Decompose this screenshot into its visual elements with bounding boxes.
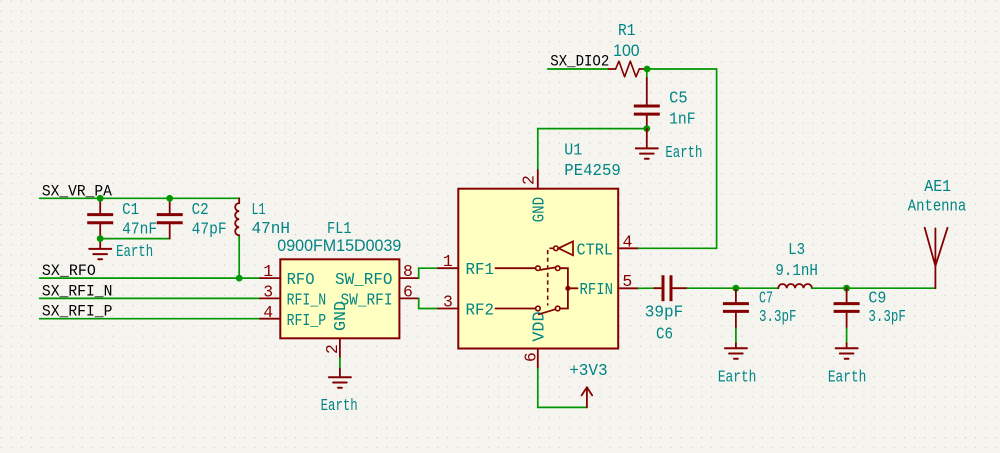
resistor R1 xyxy=(609,61,648,77)
power symbol +3V3 xyxy=(582,387,593,407)
svg-text:GND: GND xyxy=(531,197,550,223)
wire U1 GND to C5 net xyxy=(538,129,647,169)
svg-text:3.3pF: 3.3pF xyxy=(868,308,906,327)
svg-text:2: 2 xyxy=(323,344,342,354)
svg-text:100: 100 xyxy=(613,42,640,60)
capacitor C2 xyxy=(157,199,183,239)
svg-text:PE4259: PE4259 xyxy=(564,162,621,181)
svg-text:RFI_P: RFI_P xyxy=(287,312,327,331)
svg-text:3.3pF: 3.3pF xyxy=(759,308,797,327)
wire C1-C2 bottom link xyxy=(100,238,170,240)
svg-text:3: 3 xyxy=(443,292,453,311)
svg-text:U1: U1 xyxy=(564,142,582,161)
wire R1 to U1 CTRL xyxy=(639,69,717,248)
FL1 pin 2 GND xyxy=(339,338,341,358)
svg-text:C6: C6 xyxy=(656,325,673,344)
svg-text:L3: L3 xyxy=(788,241,805,260)
svg-text:L1: L1 xyxy=(252,201,266,220)
svg-text:5: 5 xyxy=(622,272,632,291)
wire SX_RFI_P xyxy=(40,318,260,320)
wire FL1 pin6 to U1 RF2 xyxy=(419,298,438,308)
U1 RFIN internal junction xyxy=(565,286,570,291)
svg-text:2: 2 xyxy=(520,175,539,185)
svg-text:C9: C9 xyxy=(868,290,886,309)
svg-text:RFO: RFO xyxy=(287,271,315,290)
junction (C1 bottom / ground) xyxy=(97,235,104,242)
antenna AE1 xyxy=(925,228,948,288)
inductor L1 xyxy=(235,198,239,235)
junction (L1 / SX_RFO) xyxy=(236,275,243,282)
ground (FL1) xyxy=(329,369,351,388)
junction (SX_VR_PA / C1) xyxy=(97,195,104,202)
svg-text:C1: C1 xyxy=(122,201,139,220)
FL1 pin 3 RFI_N xyxy=(260,297,280,299)
junction (C7 node) xyxy=(733,285,740,292)
svg-text:SX_DIO2: SX_DIO2 xyxy=(550,52,609,70)
svg-text:SX_RFI_N: SX_RFI_N xyxy=(42,282,113,300)
svg-text:39pF: 39pF xyxy=(645,304,684,323)
FL1 pin 6 SW_RFI xyxy=(399,297,418,299)
svg-text:+3V3: +3V3 xyxy=(569,362,608,381)
capacitor C7 xyxy=(723,288,749,328)
svg-text:8: 8 xyxy=(403,262,413,281)
U1 CTRL buffer triangle xyxy=(559,241,574,255)
wire SX_RFI_N xyxy=(40,297,260,299)
capacitor C1 xyxy=(87,199,113,239)
svg-text:C7: C7 xyxy=(759,290,773,309)
U1 pin 4 CTRL xyxy=(618,247,638,249)
IC U1 body xyxy=(458,189,618,349)
svg-text:0900FM15D0039: 0900FM15D0039 xyxy=(277,237,401,255)
FL1 pin 8 SW_RFO xyxy=(399,277,418,279)
svg-text:SW_RFO: SW_RFO xyxy=(335,271,393,290)
U1 pin 2 GND xyxy=(537,169,539,189)
svg-text:47nH: 47nH xyxy=(252,220,291,239)
U1 pin 5 RFIN xyxy=(618,287,638,289)
svg-text:C2: C2 xyxy=(192,201,209,220)
wire U1 VDD to +3V3 xyxy=(538,369,587,408)
inductor L3 xyxy=(778,284,812,288)
svg-text:C5: C5 xyxy=(669,90,688,109)
U1 internal RF1 line xyxy=(496,267,536,269)
wire FL1 pin2 to ground xyxy=(339,358,341,369)
wire SX_VR_PA xyxy=(40,197,240,199)
svg-text:1nF: 1nF xyxy=(669,110,696,129)
svg-text:AE1: AE1 xyxy=(924,178,951,197)
U1 pin 6 VDD xyxy=(537,349,539,369)
svg-text:Earth: Earth xyxy=(718,369,757,388)
U1 switch contact circles xyxy=(536,266,560,311)
U1 internal RF2 line xyxy=(496,308,536,310)
svg-text:Earth: Earth xyxy=(665,144,702,163)
svg-text:4: 4 xyxy=(623,232,633,251)
svg-text:1: 1 xyxy=(263,262,273,281)
wire U1 RFIN to C6 xyxy=(639,287,655,289)
U1 switch blade RF2 (open) xyxy=(539,309,556,314)
U1 RFIN internal line xyxy=(568,287,578,289)
svg-text:R1: R1 xyxy=(618,22,636,41)
wire C7 to ground xyxy=(735,328,737,343)
ground (C1) xyxy=(89,239,111,260)
U1 pin 3 RF2 xyxy=(438,308,458,310)
wire C9 to ground xyxy=(846,328,848,343)
svg-text:Earth: Earth xyxy=(321,397,358,416)
capacitor C9 xyxy=(834,288,860,328)
wire L1 bottom to SX_RFO net xyxy=(238,235,240,278)
ground (C9) xyxy=(836,343,858,358)
U1 control dashed line xyxy=(548,248,554,305)
svg-text:RFI_N: RFI_N xyxy=(287,292,327,311)
junction (C9 node) xyxy=(843,285,850,292)
svg-text:9.1nH: 9.1nH xyxy=(775,262,818,281)
svg-text:47nF: 47nF xyxy=(122,220,157,239)
svg-text:1: 1 xyxy=(443,252,453,271)
ground (C7) xyxy=(725,343,747,358)
svg-text:RFIN: RFIN xyxy=(580,281,614,300)
wire R1 junction to C5 xyxy=(646,69,648,78)
junction (C5 bottom / U1 GND net) xyxy=(643,125,650,132)
FL1 pin 4 RFI_P xyxy=(260,318,280,320)
svg-text:SX_RFO: SX_RFO xyxy=(42,262,96,280)
wire SX_DIO2 xyxy=(548,68,609,70)
junction (R1 / C5 / CTRL net) xyxy=(644,66,651,73)
junction (SX_VR_PA / C2) xyxy=(166,195,173,202)
U1 CTRL input circle xyxy=(554,246,559,251)
svg-text:RF1: RF1 xyxy=(466,261,495,280)
U1 switch common bar xyxy=(560,268,568,308)
U1 pin 1 RF1 xyxy=(438,267,458,269)
U1 switch blade RF1 (closed) xyxy=(540,267,556,270)
wire SX_RFO xyxy=(40,277,260,279)
wire C6 to C7 node xyxy=(687,287,736,289)
wire C7 node to L3 xyxy=(736,287,778,289)
svg-text:47pF: 47pF xyxy=(192,220,227,239)
svg-text:4: 4 xyxy=(263,303,273,322)
svg-text:6: 6 xyxy=(403,283,413,302)
svg-text:Earth: Earth xyxy=(828,369,867,388)
svg-text:RF2: RF2 xyxy=(466,302,495,321)
filter FL1 body xyxy=(280,259,399,338)
svg-text:Antenna: Antenna xyxy=(908,197,967,216)
svg-text:VDD: VDD xyxy=(531,311,550,342)
svg-text:FL1: FL1 xyxy=(327,220,352,239)
wire L3 to C9 node to antenna xyxy=(812,287,936,289)
FL1 pin 1 RFO xyxy=(260,277,280,279)
svg-text:SX_RFI_P: SX_RFI_P xyxy=(42,303,113,321)
ground (C5) xyxy=(636,129,658,159)
capacitor C6 xyxy=(654,275,687,301)
capacitor C5 xyxy=(634,78,660,129)
svg-text:3: 3 xyxy=(263,283,273,302)
svg-text:GND: GND xyxy=(332,301,351,331)
svg-text:6: 6 xyxy=(522,352,541,362)
wire FL1 pin8 to U1 RF1 xyxy=(419,268,438,278)
svg-text:CTRL: CTRL xyxy=(577,242,614,261)
svg-text:Earth: Earth xyxy=(116,243,153,262)
